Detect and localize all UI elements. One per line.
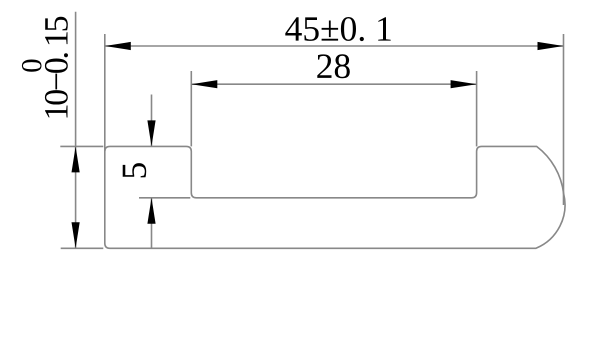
wire leader 5 upper: [151, 95, 153, 147]
wire extension line 10 bottom: [61, 247, 104, 249]
wire dimension line 45: [105, 45, 564, 47]
wire extension line 10 top: [60, 145, 103, 147]
label 28: [317, 54, 350, 78]
wire extension line 5: [139, 197, 190, 199]
label 5: [123, 163, 147, 177]
arrow 10 up: [72, 146, 80, 172]
wire extension line 45 right: [563, 34, 565, 205]
arrow 28 right: [451, 80, 477, 88]
arrow 5 down: [147, 120, 155, 146]
label 10 upper tolerance 0: [22, 60, 42, 72]
wire dimension line 10: [75, 12, 77, 249]
part outline: [105, 146, 565, 248]
wire extension line 28 right: [476, 71, 478, 146]
wire leader 5 lower: [151, 198, 153, 249]
wire dimension line 28: [191, 83, 476, 85]
arrow 28 left: [191, 80, 217, 88]
arrow 10 down: [72, 222, 80, 248]
arrow 45 right: [538, 42, 564, 50]
arrow 45 left: [105, 42, 131, 50]
wire extension line 28 left: [190, 71, 192, 146]
wire extension line 45 left: [104, 34, 106, 151]
arrow 5 up: [147, 198, 155, 224]
label 45±0.1: [285, 17, 390, 41]
label 10 main: [45, 17, 68, 118]
